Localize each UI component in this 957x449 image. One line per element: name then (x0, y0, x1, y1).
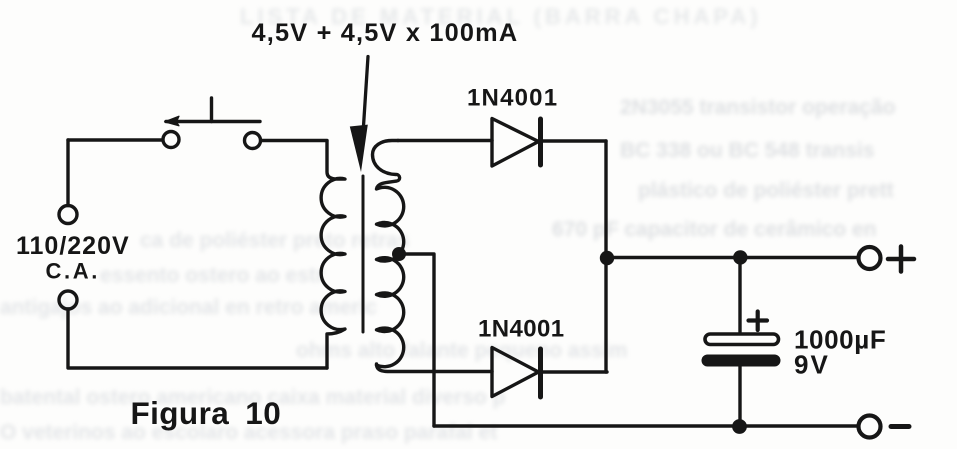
transformer T1 secondary winding (373, 141, 404, 367)
wire: D1 cathode to right rail (543, 139, 606, 142)
wire: from bottom input terminal down and right to primary bottom (68, 309, 327, 368)
switch S1 actuator stub (210, 98, 213, 122)
svg-text:1N4001: 1N4001 (467, 85, 558, 112)
wire: from switch right contact to transformer primary (261, 139, 327, 142)
input terminal circle (bottom) (59, 291, 77, 309)
wire: top-left horizontal from corner to switch left contact (68, 138, 162, 141)
wire: secondary bottom to diode D2 (377, 364, 493, 372)
output + sign (888, 247, 914, 272)
switch S1 actuator bar with left arrowhead (166, 120, 260, 123)
switch S1 left contact circle (163, 132, 179, 148)
junction: capacitor top node (733, 250, 747, 264)
svg-text:Figura 10: Figura 10 (131, 395, 282, 431)
svg-text:4,5V + 4,5V x 100mA: 4,5V + 4,5V x 100mA (252, 19, 519, 47)
output terminal + circle (859, 247, 881, 269)
arrowhead of transformer arrow (350, 125, 368, 172)
diode D1 cathode bar (538, 119, 543, 165)
wire: right vertical rail joining both diodes (604, 141, 607, 372)
diode D2 cathode bar (538, 349, 543, 397)
switch S1 right contact circle (245, 133, 261, 149)
diode D2 (bottom 1N4001) triangle (492, 348, 539, 397)
faint page showthrough text (decorative background) (240, 4, 762, 30)
wire: capacitor bottom lead (738, 366, 741, 426)
wire: D2 cathode to right rail (543, 370, 607, 373)
junction: center tap node (392, 247, 406, 261)
output terminal - circle (859, 416, 881, 438)
wire: capacitor top lead (738, 258, 741, 333)
wire: left vertical down to input terminal 1 (66, 140, 69, 206)
output - sign (891, 424, 909, 429)
junction: rectifier output node (600, 251, 614, 265)
wire: negative bottom rail (434, 424, 858, 427)
input terminal circle (top) (59, 206, 77, 224)
svg-text:110/220V: 110/220V (16, 232, 130, 260)
wire: secondary top to diode D1 (398, 139, 492, 142)
svg-text:9V: 9V (794, 350, 830, 380)
junction: capacitor bottom node (732, 419, 747, 434)
capacitor C1 negative plate (solid) (702, 355, 781, 367)
transformer core (362, 176, 365, 332)
transformer T1 primary winding (321, 141, 345, 368)
diode D1 (top 1N4001) triangle (492, 119, 539, 167)
capacitor C1 positive plate (outline) (705, 334, 779, 345)
svg-text:1N4001: 1N4001 (478, 316, 564, 343)
wire: positive output rail (606, 256, 858, 259)
svg-text:C.A.: C.A. (46, 259, 100, 284)
arrow pointing to transformer (364, 57, 369, 127)
wire: center tap to bottom rail (399, 254, 434, 426)
capacitor C1 polarity plus (749, 312, 768, 331)
